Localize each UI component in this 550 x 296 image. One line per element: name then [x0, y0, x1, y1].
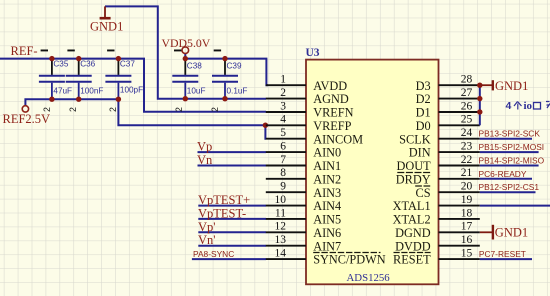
svg-text:10: 10 [275, 194, 287, 206]
overline SYNC/PDWN [313, 252, 380, 254]
svg-text:PA8-SYNC: PA8-SYNC [193, 249, 234, 259]
svg-text:DOUT: DOUT [396, 159, 431, 173]
svg-text:3: 3 [280, 100, 286, 112]
svg-text:24: 24 [461, 127, 473, 139]
svg-text:GND1: GND1 [495, 226, 528, 240]
svg-text:16: 16 [461, 234, 473, 246]
wire Vn' [198, 245, 266, 247]
overline DRDY [397, 172, 430, 174]
svg-text:C38: C38 [187, 61, 202, 70]
junction C36 top [76, 56, 81, 61]
svg-text:21: 21 [461, 167, 473, 179]
svg-text:4: 4 [506, 100, 512, 112]
wire GND1 top-left net [105, 6, 266, 98]
svg-text:23: 23 [461, 141, 473, 153]
svg-text:2: 2 [210, 107, 220, 112]
svg-text:2: 2 [108, 107, 118, 112]
wire PC7-RESET [480, 258, 532, 260]
svg-text:AIN0: AIN0 [313, 146, 341, 160]
junction C37 bottom [116, 97, 121, 102]
junction C35 bottom [49, 97, 54, 102]
svg-text:2: 2 [280, 87, 286, 99]
svg-text:REF-: REF- [11, 44, 38, 58]
junction C38 bottom [183, 96, 188, 101]
overline CS [415, 185, 430, 187]
svg-text:DGND: DGND [395, 226, 431, 240]
svg-text:D3: D3 [416, 79, 431, 93]
svg-text:100nF: 100nF [80, 87, 103, 96]
wire PB14-SPI2-MISO [480, 165, 539, 167]
svg-text:XTAL1: XTAL1 [393, 199, 431, 213]
wire D-bus right [479, 85, 481, 125]
power port VDD5.0V circle [182, 47, 189, 54]
overline RESET [394, 252, 431, 254]
svg-text:8: 8 [280, 167, 286, 179]
pin names right [393, 79, 431, 267]
svg-text:VREFP: VREFP [313, 119, 351, 133]
wire PC6-READY [480, 178, 532, 180]
svg-text:AIN3: AIN3 [313, 186, 341, 200]
svg-text:AIN6: AIN6 [313, 226, 341, 240]
power port REF2.5V circle [22, 106, 28, 112]
svg-text:AGND: AGND [313, 92, 349, 106]
capacitor C35 [39, 50, 72, 113]
svg-text:19: 19 [461, 194, 473, 206]
svg-text:4: 4 [280, 114, 286, 126]
capacitor C38 [172, 50, 205, 113]
svg-text:AIN7: AIN7 [313, 239, 341, 253]
svg-text:Vp': Vp' [198, 220, 216, 234]
wire VpTEST+ [198, 205, 266, 207]
svg-text:Vn': Vn' [198, 233, 216, 247]
svg-text:18: 18 [461, 207, 473, 219]
svg-text:SCLK: SCLK [399, 132, 431, 146]
svg-text:20: 20 [461, 181, 473, 193]
svg-text:VpTEST-: VpTEST- [198, 206, 246, 220]
svg-text:CS: CS [416, 186, 431, 200]
junction pin4/pin5 tie [263, 123, 268, 128]
svg-text:14: 14 [275, 248, 287, 260]
power port GND1 top-left [100, 6, 111, 18]
svg-text:REF2.5V: REF2.5V [3, 112, 51, 126]
svg-text:PB12-SPI2-CS1: PB12-SPI2-CS1 [479, 182, 540, 192]
svg-text:U3: U3 [306, 47, 320, 59]
svg-text:15: 15 [461, 248, 473, 260]
wire REF- rail [0, 59, 266, 112]
svg-text:GND1: GND1 [495, 79, 528, 93]
wire Vp' [198, 231, 266, 233]
svg-text:io: io [524, 100, 533, 112]
svg-text:VDD5.0V: VDD5.0V [162, 36, 211, 50]
capacitor C36 [66, 50, 104, 113]
junction C39 bottom [222, 96, 227, 101]
svg-text:AIN4: AIN4 [313, 199, 341, 213]
pins right stubs [439, 85, 480, 259]
svg-text:PB13-SPI2-SCK: PB13-SPI2-SCK [479, 129, 541, 139]
svg-text:SYNC/PDWN: SYNC/PDWN [313, 253, 386, 267]
svg-text:9: 9 [280, 181, 286, 193]
wire PB12-SPI2-CS1 [480, 191, 536, 193]
svg-text:11: 11 [275, 207, 286, 219]
wire Vn [198, 165, 267, 167]
svg-text:D0: D0 [416, 119, 431, 133]
svg-text:0.1uF: 0.1uF [227, 87, 248, 96]
capacitor C37 [105, 50, 143, 113]
wire PA8-SYNC [192, 258, 266, 260]
svg-text:100pF: 100pF [120, 86, 143, 95]
svg-text:C39: C39 [227, 61, 242, 70]
svg-text:DIN: DIN [409, 146, 431, 160]
svg-text:VpTEST+: VpTEST+ [198, 193, 250, 207]
svg-text:2: 2 [42, 107, 52, 112]
svg-text:ADS1256: ADS1256 [347, 272, 391, 284]
svg-text:5: 5 [280, 127, 286, 139]
svg-text:6: 6 [280, 141, 286, 153]
junction C39 top [222, 56, 227, 61]
svg-text:AIN5: AIN5 [313, 213, 341, 227]
pin numbers right 28-15 [461, 74, 473, 260]
svg-text:PB14-SPI2-MISO: PB14-SPI2-MISO [479, 156, 545, 166]
junction C35 top [49, 56, 54, 61]
svg-text:RESET: RESET [393, 253, 431, 267]
svg-text:AIN1: AIN1 [313, 159, 341, 173]
svg-text:Vp: Vp [197, 140, 212, 154]
svg-text:AIN2: AIN2 [313, 172, 341, 186]
junction pin28 [477, 83, 482, 88]
svg-text:22: 22 [461, 154, 473, 166]
svg-text:PC6-READY: PC6-READY [479, 169, 527, 179]
svg-text:DVDD: DVDD [395, 239, 431, 253]
svg-text:2: 2 [68, 107, 78, 112]
svg-text:26: 26 [461, 100, 473, 112]
wire VpTEST- [198, 218, 266, 220]
svg-text:D1: D1 [416, 106, 431, 120]
svg-text:10uF: 10uF [187, 87, 206, 96]
pins left stubs [266, 85, 306, 259]
svg-text:2: 2 [174, 107, 184, 112]
junction C38 top [183, 56, 188, 61]
svg-text:C36: C36 [80, 60, 95, 69]
junction pin26 [477, 109, 482, 114]
junction pin27 [477, 96, 482, 101]
svg-text:PB15-SPI2-MOSI: PB15-SPI2-MOSI [479, 142, 545, 152]
op-amp U3 body ADS1256 [306, 60, 439, 285]
wire PB13-SPI2-SCK [480, 138, 532, 140]
junction C36 bottom [76, 97, 81, 102]
svg-text:13: 13 [275, 234, 287, 246]
svg-text:17: 17 [461, 221, 473, 233]
svg-text:VREFN: VREFN [313, 106, 353, 120]
power port GND1 right-top [480, 79, 529, 93]
svg-text:Vn: Vn [197, 153, 213, 167]
svg-text:DRDY: DRDY [396, 172, 431, 186]
svg-text:XTAL2: XTAL2 [393, 213, 431, 227]
svg-text:AINCOM: AINCOM [313, 132, 363, 146]
svg-text:12: 12 [275, 221, 287, 233]
wire REF2.5V rail [25, 99, 266, 139]
svg-text:C37: C37 [120, 60, 135, 69]
pin numbers left 1-14 [275, 74, 287, 260]
wire PB15-SPI2-MOSI [480, 151, 539, 153]
annotation 4个io口 [506, 100, 550, 112]
svg-text:AVDD: AVDD [313, 79, 347, 93]
svg-text:GND1: GND1 [90, 20, 123, 34]
svg-text:25: 25 [461, 114, 473, 126]
svg-text:D2: D2 [416, 92, 431, 106]
wire Vp [198, 151, 267, 153]
svg-text:PC7-RESET: PC7-RESET [479, 249, 526, 259]
capacitor C39 [210, 50, 248, 113]
wire VDD5.0V rail [185, 54, 268, 86]
pin names left [313, 79, 386, 267]
wire XTAL1 [480, 205, 550, 207]
svg-text:1: 1 [280, 74, 286, 86]
junction C37 top [116, 56, 121, 61]
svg-text:7: 7 [280, 154, 286, 166]
svg-text:47uF: 47uF [53, 87, 72, 96]
power port GND1 right-bottom [480, 225, 528, 240]
svg-text:27: 27 [461, 87, 473, 99]
svg-text:28: 28 [461, 74, 473, 86]
svg-text:C35: C35 [53, 60, 68, 69]
